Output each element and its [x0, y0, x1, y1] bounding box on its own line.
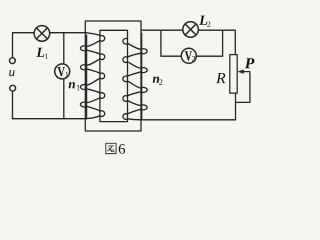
- resistor R body: [230, 55, 237, 94]
- wire upper terminal to lamp L1: [13, 33, 35, 58]
- wire R bottom lead: [235, 93, 237, 120]
- label L2: [199, 16, 210, 27]
- wire slider P tail down to R lead: [236, 73, 250, 103]
- terminal upper: [10, 58, 16, 64]
- wire bottom right from secondary to R: [141, 119, 236, 121]
- label P: [245, 58, 255, 68]
- caption glyph tu (figure): [106, 143, 116, 153]
- label n2: [153, 77, 163, 85]
- secondary winding n2 front line: [141, 33, 143, 119]
- wire secondary top to lamp L2 and down to R: [141, 30, 235, 54]
- label R: [216, 73, 225, 83]
- label L1: [36, 48, 48, 59]
- caption figure number 6: [119, 144, 125, 154]
- wire V1 top lead: [63, 33, 65, 64]
- wire V2 right lead and riser: [196, 30, 222, 56]
- primary winding n1 turns: [80, 33, 104, 119]
- lamp L2: [183, 22, 199, 38]
- wire V1 bottom lead: [63, 79, 65, 119]
- wire bottom left to primary winding: [13, 118, 87, 120]
- lamp L1: [34, 26, 50, 42]
- voltmeter V2: [181, 48, 196, 63]
- wire V2 branch left riser and lead: [161, 30, 182, 56]
- label u: [9, 70, 14, 76]
- primary winding n1 front line: [86, 35, 88, 118]
- slider P arrow: [238, 70, 250, 74]
- label n1: [69, 82, 80, 90]
- secondary winding n2 turns: [123, 38, 147, 119]
- terminal lower: [10, 85, 16, 91]
- transformer core inner window: [100, 30, 128, 121]
- wire lower terminal down: [12, 91, 14, 118]
- voltmeter V1: [55, 64, 70, 79]
- wire lamp L1 to primary winding top: [50, 32, 86, 34]
- transformer core outer: [85, 21, 141, 131]
